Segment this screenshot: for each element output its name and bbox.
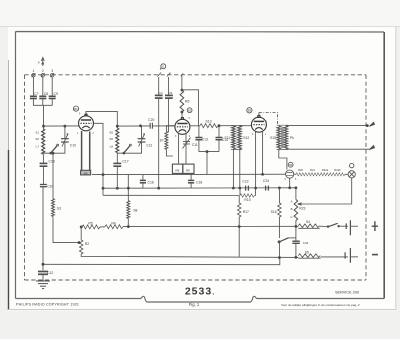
svg-text:C34: C34 bbox=[303, 241, 309, 245]
svg-text:S5: S5 bbox=[305, 251, 309, 255]
bus line y227 bbox=[100, 225, 298, 228]
bus line y194.5 bbox=[103, 194, 239, 196]
wire R2 bottom to bus bbox=[81, 254, 298, 257]
minus terminal bbox=[372, 254, 378, 256]
B1 electrode stem rectangle bbox=[82, 131, 90, 170]
wire R6 top to border bbox=[181, 74, 184, 90]
wire terminal2 to C8 bbox=[42, 77, 44, 96]
coil S3 bbox=[52, 199, 55, 217]
svg-text:Fig. 1: Fig. 1 bbox=[189, 302, 200, 307]
wire C13 column bbox=[198, 126, 200, 152]
svg-text:C10: C10 bbox=[70, 144, 76, 148]
wire S7 ends bbox=[166, 126, 175, 156]
wire C19 to C10b bbox=[42, 166, 44, 184]
svg-text:R6: R6 bbox=[185, 100, 189, 104]
B2 electrode leads bbox=[179, 133, 186, 164]
tube B2 designator circle bbox=[187, 108, 192, 113]
tube B2 bbox=[175, 118, 190, 135]
capacitor C7 bbox=[30, 96, 37, 98]
svg-text:S6: S6 bbox=[109, 137, 113, 141]
svg-text:C9: C9 bbox=[54, 92, 58, 96]
svg-text:C19: C19 bbox=[49, 160, 55, 164]
wire R23 bottom bbox=[295, 221, 297, 227]
svg-text:2: 2 bbox=[42, 69, 44, 73]
junction R2 top bus bbox=[80, 226, 82, 228]
wire R17 top bbox=[238, 196, 240, 204]
junction R6 bottom bbox=[181, 111, 183, 113]
wire R6 loop right bbox=[182, 90, 199, 126]
svg-text:PHILIPS RADIO COPYRIGHT 1931: PHILIPS RADIO COPYRIGHT 1931 bbox=[16, 303, 79, 307]
svg-text:C13: C13 bbox=[202, 137, 208, 141]
capacitor C4 bbox=[155, 95, 163, 98]
svg-text:C11: C11 bbox=[192, 143, 198, 147]
svg-text:S1: S1 bbox=[35, 131, 39, 135]
wire IFT secondary to B3 grid bbox=[239, 125, 251, 127]
pilot lamp bbox=[348, 171, 355, 178]
aerial terminal 2 bbox=[41, 73, 45, 77]
svg-text:R22a: R22a bbox=[322, 168, 329, 172]
junction S8 buses bbox=[127, 187, 129, 189]
svg-text:E: E bbox=[162, 64, 164, 68]
wire R6 bottom to B2 topcap bbox=[181, 112, 183, 118]
wire trimmer bottom bbox=[43, 142, 65, 153]
svg-text:B4: B4 bbox=[289, 163, 293, 167]
tube B1 bbox=[79, 114, 94, 131]
junction C14 top bbox=[218, 125, 220, 127]
wire anode line B1 to B2 bbox=[117, 125, 175, 127]
lamp designator circle bbox=[350, 163, 354, 167]
svg-text:R20: R20 bbox=[298, 168, 303, 172]
aerial terminal 1 bbox=[32, 73, 36, 77]
junction R17 bus bbox=[238, 226, 240, 228]
wire C16 links bbox=[142, 175, 144, 189]
svg-text:Ph: Ph bbox=[290, 136, 294, 140]
junction R2 wire bbox=[78, 242, 80, 244]
capacitor C10b bbox=[40, 185, 47, 187]
IF transformer S12 secondary bbox=[238, 126, 242, 149]
wire B1 anode top loop bbox=[86, 111, 117, 128]
capacitor C16 bbox=[140, 180, 146, 182]
wire S5 to connector bbox=[321, 256, 348, 258]
wire trimmer top to grid line bbox=[64, 126, 66, 139]
svg-text:R8: R8 bbox=[176, 169, 180, 173]
svg-text:S16: S16 bbox=[271, 210, 277, 214]
pin digits bbox=[77, 114, 297, 182]
wire chain to lamp bbox=[294, 173, 348, 175]
OT core lines bbox=[277, 125, 288, 149]
svg-text:C8: C8 bbox=[44, 92, 48, 96]
antenna arrow A bbox=[41, 58, 44, 67]
resistor R23 tapped bbox=[294, 200, 298, 221]
wire trimmer bottom bbox=[117, 142, 141, 153]
choke S4 bbox=[298, 224, 319, 228]
wire terminal3 to C9 bbox=[51, 77, 53, 96]
wire trimmer top to anode line bbox=[141, 126, 143, 139]
tube B3 bbox=[251, 116, 266, 133]
capacitor C17 bbox=[113, 163, 121, 166]
junction trimmer grid bbox=[64, 125, 66, 127]
long earth bus wire bbox=[43, 258, 280, 265]
connector bars plus row bbox=[346, 220, 350, 235]
resistor R17 bbox=[237, 203, 241, 217]
junction earth bus bbox=[42, 263, 44, 265]
coil S7 bbox=[165, 132, 168, 150]
output transformer secondary S16w bbox=[284, 126, 288, 149]
junction R23 bus bbox=[295, 187, 297, 189]
tube B3 designator circle bbox=[247, 108, 252, 113]
svg-text:A: A bbox=[38, 61, 40, 65]
switch SK4 bbox=[327, 223, 339, 227]
wire C10b down to earth bus bbox=[42, 187, 44, 271]
svg-text:R5: R5 bbox=[88, 222, 92, 226]
svg-text:S12: S12 bbox=[243, 136, 249, 140]
wave switch SK2 bbox=[123, 144, 131, 154]
capacitor C13 bbox=[195, 138, 202, 140]
IF transformer S11 primary bbox=[232, 126, 236, 149]
wire S4 to switch bbox=[320, 225, 328, 227]
svg-text:S5: S5 bbox=[109, 131, 113, 135]
wire S13 to IFT bbox=[218, 125, 233, 127]
svg-text:S11: S11 bbox=[224, 136, 230, 140]
wire grid B1 bbox=[44, 125, 79, 127]
wire connector to border bbox=[350, 225, 358, 227]
junctions bus bbox=[102, 187, 104, 189]
wire lamp down left arrow bbox=[298, 178, 352, 205]
svg-text:Voor de talrijke afwijkingen i: Voor de talrijke afwijkingen in de conde… bbox=[281, 303, 360, 307]
wire terminal1 to C7 bbox=[32, 77, 34, 96]
svg-text:S15: S15 bbox=[270, 136, 276, 140]
svg-text:C11: C11 bbox=[146, 144, 152, 148]
wire C12 to ground bbox=[42, 274, 44, 281]
capacitor C19 bbox=[40, 163, 48, 166]
svg-text:B1: B1 bbox=[74, 107, 78, 111]
svg-text:A3: A3 bbox=[84, 171, 88, 175]
resistor S13 horizontal bbox=[200, 124, 218, 128]
aerial terminal 3 bbox=[50, 73, 54, 77]
wire switch pivot down bbox=[278, 242, 280, 258]
wire S3 top bbox=[52, 153, 54, 198]
dashed chassis border bbox=[25, 75, 367, 280]
junction B3 lead2 bus bbox=[262, 173, 264, 175]
resistor R5 horizontal bbox=[82, 225, 100, 229]
svg-text:C24: C24 bbox=[263, 179, 269, 183]
wire C4 down long bbox=[158, 98, 160, 188]
capacitor C18 bbox=[188, 180, 194, 182]
capacitor C14 bbox=[216, 138, 223, 140]
svg-text:C: C bbox=[290, 215, 292, 219]
wire R2 top bbox=[80, 227, 82, 240]
ground bbox=[36, 281, 50, 289]
wire S16 top junction bbox=[278, 188, 280, 203]
svg-text:C4: C4 bbox=[159, 91, 163, 95]
svg-text:SERVICE 290: SERVICE 290 bbox=[335, 291, 359, 295]
wire S16 bottom to switch bbox=[278, 217, 280, 238]
svg-text:L8: L8 bbox=[110, 145, 114, 149]
wire connector to border minus bbox=[350, 256, 358, 258]
wire B4 down to bus bbox=[289, 178, 291, 188]
page edge lines bbox=[0, 26, 400, 28]
resistor chain R22b bbox=[333, 173, 345, 176]
svg-text:S4: S4 bbox=[306, 220, 310, 224]
switch SK3 bbox=[278, 238, 289, 243]
IFT core lines bbox=[231, 126, 242, 150]
svg-text:C16: C16 bbox=[148, 181, 154, 185]
junction pivot bus bbox=[278, 257, 280, 259]
wire switch to connector bbox=[339, 225, 348, 227]
wire B3 topcap dashdot bbox=[259, 113, 278, 125]
terminal E2 bbox=[167, 73, 171, 97]
svg-text:C17: C17 bbox=[122, 160, 128, 164]
wire B2 anode to S13 bbox=[190, 125, 200, 127]
wire switch stub bbox=[289, 237, 296, 239]
resistor R2 bbox=[79, 240, 83, 254]
svg-text:C20: C20 bbox=[148, 118, 154, 122]
coupling capacitor C20 bbox=[150, 123, 152, 129]
svg-text:S8: S8 bbox=[133, 209, 137, 213]
trimmer capacitor C10 bbox=[61, 134, 69, 147]
output transformer primary S15 bbox=[277, 126, 281, 149]
wire S1 bottom down bbox=[42, 154, 44, 163]
coil S8 bbox=[127, 201, 130, 219]
coil S6 bbox=[116, 128, 119, 153]
trimmer capacitor C11 bbox=[183, 138, 191, 149]
wire IFT bottom bus bbox=[206, 152, 208, 175]
terminal E1 bbox=[158, 73, 162, 96]
svg-text:R21: R21 bbox=[310, 168, 315, 172]
resistor box R9 bbox=[183, 164, 194, 173]
capacitor C5 bbox=[165, 95, 173, 98]
wire B1 cathode right down bbox=[94, 123, 104, 195]
wire C5 down bbox=[168, 98, 170, 132]
svg-text:C7: C7 bbox=[34, 92, 38, 96]
resistor S16 bbox=[278, 203, 282, 217]
wire caps to junction bar bbox=[33, 99, 52, 106]
junction IFT bus bbox=[232, 187, 234, 189]
svg-text:3: 3 bbox=[51, 69, 53, 73]
resistor chain R21 bbox=[308, 173, 320, 176]
bus line y174.5 bbox=[92, 173, 286, 175]
svg-text:L7: L7 bbox=[36, 145, 40, 149]
capacitor C34 bbox=[292, 241, 299, 243]
svg-text:R9: R9 bbox=[186, 169, 190, 173]
svg-text:B: B bbox=[291, 207, 293, 211]
junction B3 lead1 bus bbox=[255, 187, 257, 189]
svg-text:S2: S2 bbox=[35, 137, 39, 141]
trimmer capacitor C11b bbox=[138, 134, 146, 147]
svg-text:C12: C12 bbox=[47, 271, 53, 275]
wire R23 top to bus bbox=[295, 188, 297, 200]
B3 electrode leads bbox=[256, 132, 263, 196]
wire center vertical down bbox=[238, 227, 240, 257]
speaker terminal bottom bbox=[369, 146, 374, 150]
wire down to tuning coil bbox=[43, 105, 45, 129]
junction C34 bus bbox=[295, 256, 297, 258]
wire C34 column bbox=[295, 226, 297, 257]
svg-text:1: 1 bbox=[32, 69, 34, 73]
capacitor C22 bbox=[246, 186, 249, 191]
capacitor C9 bbox=[49, 96, 56, 98]
connector bars minus row bbox=[345, 248, 350, 263]
junction S13 bus bbox=[206, 151, 208, 153]
coil S1 bbox=[42, 129, 45, 154]
speaker terminal top bbox=[366, 122, 374, 126]
junction grid line bbox=[43, 125, 45, 127]
svg-text:R10: R10 bbox=[244, 198, 250, 202]
svg-text:R4: R4 bbox=[111, 221, 115, 225]
wire S8 bottom bbox=[127, 219, 129, 227]
tube B4 designator circle bbox=[288, 162, 293, 167]
schematic frame border bbox=[16, 32, 385, 303]
resistor box R8 bbox=[172, 164, 182, 173]
junction C4 line bus bbox=[158, 187, 160, 189]
svg-text:R17: R17 bbox=[243, 210, 249, 214]
svg-text:C22: C22 bbox=[242, 180, 248, 184]
wire C18 links bbox=[190, 174, 192, 188]
resistor chain R22a bbox=[320, 173, 332, 176]
wire S6 bottom down bbox=[116, 153, 118, 164]
svg-text:R2: R2 bbox=[85, 242, 89, 246]
svg-text:S13: S13 bbox=[205, 119, 211, 123]
capacitor C12 bbox=[38, 272, 48, 275]
wire OT to speaker line bottom bbox=[286, 148, 370, 150]
junction S16 bus bbox=[278, 187, 280, 189]
choke S5 bbox=[298, 254, 320, 258]
svg-text:B2: B2 bbox=[188, 108, 192, 112]
junction S8 bus4 bbox=[127, 226, 129, 228]
svg-text:S7: S7 bbox=[160, 139, 164, 143]
resistor R6 vertical bbox=[180, 90, 184, 112]
resistor box R4 under B1 bbox=[81, 170, 91, 175]
resistor R10 horizontal bbox=[240, 194, 254, 197]
wave switch SK1 bbox=[50, 144, 59, 154]
junction C17 bus bbox=[116, 187, 118, 189]
svg-text:B3: B3 bbox=[248, 109, 252, 113]
bus line y188 bbox=[103, 187, 296, 189]
plus terminal bbox=[372, 221, 378, 231]
svg-text:A: A bbox=[291, 200, 293, 204]
svg-text:2533.: 2533. bbox=[185, 286, 215, 298]
capacitor C8 bbox=[39, 96, 46, 98]
capacitor C24 bbox=[266, 186, 269, 191]
svg-text:R22b: R22b bbox=[334, 168, 341, 172]
svg-text:C5: C5 bbox=[168, 91, 172, 95]
wire C14 column bbox=[199, 126, 219, 152]
svg-text:C10: C10 bbox=[47, 184, 53, 188]
svg-text:R23: R23 bbox=[299, 207, 305, 211]
scanned page background bbox=[0, 0, 400, 27]
resistor R4b horizontal bbox=[105, 225, 123, 229]
resistor chain R20 bbox=[296, 173, 308, 176]
wire C17 down to bus bbox=[116, 166, 118, 188]
svg-text:S3: S3 bbox=[57, 207, 61, 211]
wire IFT down to bus bbox=[233, 149, 239, 188]
wire R17 bottom to bus bbox=[238, 217, 240, 227]
wire S8 top bbox=[127, 175, 129, 201]
junction R6 top bbox=[181, 89, 183, 91]
earth terminal circle E bbox=[161, 64, 166, 69]
wire OT to speaker line top bbox=[286, 125, 368, 127]
tube B4 grid bias bbox=[286, 170, 294, 178]
wire OT primary down to B4 bbox=[279, 149, 287, 169]
tube B1 designator circle bbox=[73, 106, 78, 111]
wire S3 bottom to R2 wire bbox=[53, 217, 79, 243]
wire R10 to C22 column bbox=[240, 188, 256, 196]
junction anode line bbox=[140, 125, 142, 127]
svg-text:C18: C18 bbox=[196, 181, 202, 185]
